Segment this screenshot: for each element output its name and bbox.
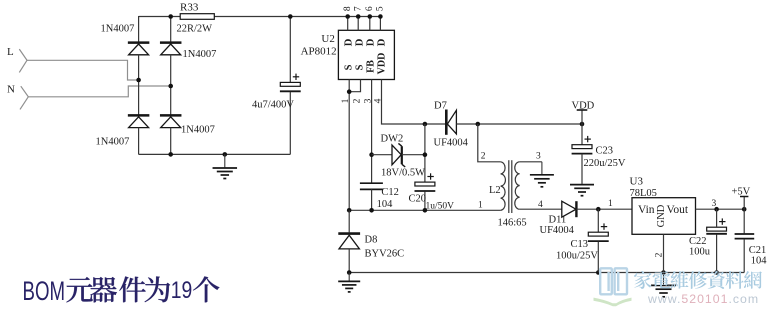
svg-text:2: 2	[352, 98, 362, 103]
svg-text:22R/2W: 22R/2W	[177, 24, 213, 35]
svg-text:D7: D7	[434, 101, 447, 112]
svg-text:UF4004: UF4004	[540, 225, 575, 236]
svg-text:7: 7	[353, 6, 363, 11]
svg-text:AP8012: AP8012	[301, 46, 337, 58]
svg-text:BYV26C: BYV26C	[365, 249, 405, 260]
svg-text:L: L	[7, 46, 14, 58]
svg-text:DW2: DW2	[381, 134, 404, 145]
svg-text:6: 6	[365, 6, 375, 11]
svg-text:104: 104	[751, 256, 768, 267]
svg-text:Vin: Vin	[638, 204, 655, 216]
svg-text:1: 1	[608, 199, 613, 209]
svg-text:3: 3	[536, 152, 541, 162]
svg-text:R33: R33	[180, 2, 199, 14]
svg-text:100u/25V: 100u/25V	[556, 250, 598, 261]
svg-text:8: 8	[343, 6, 353, 11]
svg-text:4: 4	[538, 200, 543, 210]
svg-text:2: 2	[655, 252, 665, 257]
svg-text:C21: C21	[749, 245, 767, 256]
svg-text:D: D	[354, 38, 365, 46]
svg-text:C22: C22	[689, 236, 707, 247]
svg-text:D8: D8	[365, 235, 378, 246]
svg-text:1N4007: 1N4007	[96, 137, 130, 148]
svg-text:C12: C12	[381, 187, 399, 198]
svg-text:104: 104	[377, 199, 394, 210]
svg-text:C23: C23	[596, 146, 614, 157]
svg-text:FB: FB	[365, 60, 376, 73]
svg-text:UF4004: UF4004	[434, 137, 469, 148]
svg-text:146:65: 146:65	[498, 218, 527, 229]
svg-text:U2: U2	[321, 33, 334, 45]
svg-text:S: S	[354, 64, 365, 70]
svg-text:L2: L2	[489, 185, 501, 196]
svg-text:D11: D11	[549, 215, 567, 226]
svg-text:Vout: Vout	[667, 204, 689, 216]
svg-text:VDD: VDD	[376, 53, 387, 75]
svg-text:5: 5	[376, 6, 386, 11]
svg-text:18V/0.5W: 18V/0.5W	[381, 168, 425, 179]
svg-text:+5V: +5V	[732, 187, 751, 198]
svg-text:N: N	[7, 84, 15, 96]
svg-text:S: S	[343, 64, 354, 70]
svg-text:19: 19	[171, 277, 193, 304]
svg-text:U3: U3	[630, 176, 644, 188]
svg-text:GND: GND	[656, 204, 667, 227]
svg-text:1N4007: 1N4007	[183, 49, 217, 60]
svg-text:2: 2	[481, 152, 486, 162]
svg-text:220u/25V: 220u/25V	[584, 158, 626, 169]
svg-text:VDD: VDD	[572, 100, 595, 111]
svg-text:D: D	[343, 38, 354, 46]
svg-text:1: 1	[478, 201, 483, 211]
svg-text:BOM: BOM	[23, 276, 66, 306]
svg-text:www.520101.com: www.520101.com	[647, 292, 759, 306]
svg-text:D: D	[366, 38, 377, 46]
svg-text:100u: 100u	[689, 247, 711, 258]
svg-text:1N4007: 1N4007	[181, 125, 215, 136]
svg-text:D: D	[377, 38, 388, 46]
svg-text:1N4007: 1N4007	[101, 24, 135, 35]
svg-text:4u7/400V: 4u7/400V	[252, 100, 294, 111]
svg-text:C20: C20	[409, 194, 427, 205]
svg-text:C13: C13	[571, 239, 589, 250]
